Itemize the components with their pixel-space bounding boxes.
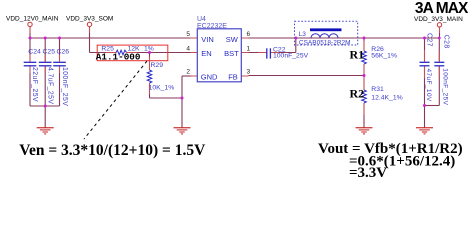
svg-text:VDD_3V3_SOM: VDD_3V3_SOM [66,15,113,22]
svg-text:100nF_25V: 100nF_25V [61,67,68,106]
svg-text:Ven = 3.3*10/(12+10) = 1.5V: Ven = 3.3*10/(12+10) = 1.5V [19,142,206,159]
svg-text:C25: C25 [43,49,56,56]
svg-text:FB: FB [228,73,238,82]
svg-text:22uF_25V: 22uF_25V [31,67,38,102]
svg-text:5: 5 [186,31,190,38]
svg-text:100nF_25V: 100nF_25V [273,53,309,60]
svg-text:BST: BST [224,49,239,58]
svg-text:1%: 1% [144,46,154,53]
svg-text:C26: C26 [57,49,70,56]
svg-text:R29: R29 [151,62,164,69]
svg-text:C24: C24 [28,49,41,56]
svg-text:100nF_25V: 100nF_25V [441,68,448,105]
svg-text:VDD_12V0_MAIN: VDD_12V0_MAIN [6,15,59,22]
svg-text:3: 3 [247,69,251,76]
svg-text:VDD_3V3_MAIN: VDD_3V3_MAIN [414,16,463,23]
svg-text:C28: C28 [443,35,450,49]
svg-text:3A MAX: 3A MAX [415,0,469,17]
svg-text:EN: EN [201,49,211,58]
svg-text:6: 6 [247,31,251,38]
svg-text:SW: SW [226,35,239,44]
svg-text:12.4K_1%: 12.4K_1% [371,95,402,102]
svg-text:1: 1 [247,46,251,53]
svg-text:R31: R31 [371,86,384,93]
svg-text:4: 4 [186,46,190,53]
svg-text:56K_1%: 56K_1% [371,52,397,59]
svg-text:GND: GND [201,73,218,82]
svg-text:L3: L3 [299,31,307,38]
svg-text:A1.1-000: A1.1-000 [96,51,141,62]
svg-text:CSAB0518-2R2M: CSAB0518-2R2M [299,39,351,46]
svg-text:R2: R2 [350,87,365,101]
svg-text:EC2232E: EC2232E [197,23,227,30]
svg-text:4.7uF_25V: 4.7uF_25V [46,67,53,104]
svg-text:47uF_10V: 47uF_10V [425,69,432,102]
svg-text:U4: U4 [197,16,206,23]
svg-text:C27: C27 [426,33,433,47]
svg-text:2: 2 [186,69,190,76]
svg-text:R1: R1 [350,47,365,61]
svg-text:VIN: VIN [201,35,214,44]
svg-text:10K_1%: 10K_1% [149,84,175,91]
svg-text:=3.3V: =3.3V [349,165,387,177]
